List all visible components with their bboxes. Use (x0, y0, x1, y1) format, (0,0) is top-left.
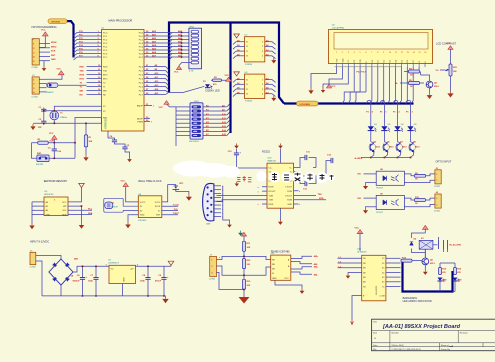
svg-text:Sheet of: Sheet of (441, 344, 449, 347)
op IC U10 MAX232 (267, 163, 294, 208)
svg-text:R1IN: R1IN (269, 187, 274, 189)
resistor R13 bottom (242, 279, 245, 289)
resistor R16 bargraph led2 (454, 268, 457, 275)
svg-text:VCC: VCC (284, 278, 289, 280)
svg-text:D4: D4 (395, 60, 397, 62)
svg-text:DS8XX LED: DS8XX LED (206, 89, 220, 93)
svg-text:RST: RST (51, 55, 56, 57)
ground U5 right (81, 223, 83, 226)
svg-text:D7: D7 (413, 60, 415, 62)
svg-text:104C: 104C (88, 280, 93, 283)
svg-text:C:\PROJECT\..\ 89S-XXX-SCH: C:\PROJECT\..\ 89S-XXX-SCH (392, 349, 421, 351)
svg-text:RL-AC-DRV: RL-AC-DRV (450, 244, 462, 247)
wire bridge bottom to ground rail (60, 285, 62, 296)
svg-text:Number: Number (392, 332, 400, 335)
battery BT1 (173, 186, 180, 192)
svg-text:485+: 485+ (314, 255, 319, 258)
ground isolated teal (240, 231, 242, 233)
svg-text:SW DIP-8: SW DIP-8 (189, 141, 200, 143)
svg-text:P-8032: P-8032 (245, 100, 253, 102)
ground arrow U2 inputs (234, 34, 240, 38)
capacitor C7 104 (95, 266, 97, 277)
resistor R12 mid (242, 259, 245, 269)
svg-text:SW-PB: SW-PB (36, 164, 44, 166)
wire ULN left inputs (338, 257, 362, 259)
op IC U1 MAIN PROCESSOR AT89S52 (102, 30, 145, 132)
transistor Q6 relay driver (422, 258, 429, 265)
relay contacts (433, 244, 438, 246)
svg-text:IO: IO (158, 210, 161, 212)
wire U11 gnd (275, 280, 302, 288)
connector J2 power aux 4 pin (32, 77, 39, 94)
svg-text:6: 6 (365, 52, 366, 54)
svg-text:RD: RD (80, 94, 84, 96)
svg-text:10: 10 (389, 52, 391, 54)
svg-text:T1IN: T1IN (269, 195, 274, 197)
svg-text:LED: LED (457, 280, 462, 282)
ground R1 (85, 155, 87, 157)
power VCC RTC left (123, 183, 129, 187)
svg-text:14: 14 (413, 52, 415, 54)
watermark dark glyphs (272, 173, 277, 181)
svg-text:TXD: TXD (80, 70, 85, 72)
svg-text:D2: D2 (384, 60, 386, 62)
wire DIP switch rows to bus (203, 106, 227, 108)
resistor R10 opto pullup (414, 199, 425, 202)
connector J1 ISP 5 pin (32, 39, 39, 65)
wire XTAL top rail to X1 (44, 110, 102, 112)
watermark circle (292, 171, 303, 182)
ground arrow U3 inputs (234, 72, 240, 76)
svg-text:T-CLK: T-CLK (173, 205, 180, 207)
svg-text:4.7K: 4.7K (189, 71, 194, 73)
op IC U3 P-BUS buffer bottom (245, 74, 265, 98)
svg-text:INPUT 9-12VDC: INPUT 9-12VDC (30, 240, 49, 244)
svg-text:GND: GND (51, 59, 56, 61)
svg-text:ISP PROGRAMMING: ISP PROGRAMMING (32, 25, 57, 29)
watermark circle (304, 172, 315, 183)
wire opto1 output (404, 174, 414, 176)
capacitor C13 lower right loop (294, 176, 316, 184)
svg-text:12: 12 (401, 52, 403, 54)
ground RS485 big (243, 295, 245, 297)
svg-text:PSEN: PSEN (137, 121, 143, 123)
wire MAX232 T1OUT R1IN to DB9 (217, 194, 268, 196)
power +5V hollow arrow (170, 265, 172, 266)
resistor R11 top (242, 241, 245, 251)
ground battery (188, 194, 190, 197)
ground opto2 (365, 208, 367, 210)
svg-text:RO: RO (272, 259, 276, 261)
wire LCD control+data pins to bus (353, 67, 355, 92)
svg-text:R1OUT: R1OUT (269, 191, 277, 193)
resistor R5 (409, 82, 420, 85)
ground Q6 (424, 270, 426, 272)
wire bridge + output rail (73, 266, 171, 272)
connector J4 CON2 (435, 194, 441, 208)
svg-text:+5V: +5V (130, 269, 134, 271)
svg-text:10K: 10K (247, 285, 251, 287)
svg-text:24-Dec-2005: 24-Dec-2005 (392, 345, 405, 347)
wire LED column 3 from bus (397, 103, 399, 105)
svg-text:CON2: CON2 (30, 267, 37, 269)
svg-text:CON2: CON2 (434, 210, 441, 212)
svg-text:D5: D5 (401, 60, 403, 62)
ground U2 (273, 58, 275, 60)
svg-text:ULN2003: ULN2003 (357, 251, 367, 253)
op resistor network RN1 4.7K (189, 28, 202, 69)
svg-text:16: 16 (424, 52, 426, 54)
svg-text:15: 15 (419, 52, 421, 54)
wire DIP switch left common (176, 106, 190, 108)
svg-text:13: 13 (407, 52, 409, 54)
wire MAX232 TTL side TXD RXD (294, 191, 326, 204)
wire group P0 port from U1 to RN1 with bus entries (144, 32, 191, 34)
svg-text:D6: D6 (407, 60, 409, 62)
wire LCD pin3 VO (323, 67, 348, 88)
watermark circle (281, 171, 292, 182)
svg-text:32K78: 32K78 (111, 207, 118, 209)
capacitor C12 right loop 2 (294, 161, 331, 177)
power VCC second (58, 71, 64, 75)
svg-text:RS232: RS232 (262, 150, 270, 154)
connector J5 power input CON2 (30, 252, 36, 264)
op optocoupler U9 PC817 (376, 195, 404, 209)
power +5 hollow arrow U5 (79, 183, 85, 187)
svg-text:VCC: VCC (159, 107, 164, 109)
wire U2 right pins to right bus (265, 41, 272, 43)
ground XTAL rail left (32, 124, 34, 126)
watermark red glyphs (237, 176, 252, 182)
wire RTC VCC1 to battery (162, 185, 176, 202)
watermark circle (316, 172, 327, 183)
svg-text:ULN2003: ULN2003 (376, 285, 378, 295)
LED D7 (438, 278, 443, 282)
svg-text:CON5: CON5 (32, 67, 39, 69)
wire bus vertical to DIP switch (229, 23, 231, 134)
svg-text:T-IO: T-IO (174, 209, 178, 211)
svg-text:GND: GND (272, 278, 277, 280)
transistor Q1 9013 (369, 144, 376, 151)
potentiometer VR1 (450, 49, 452, 64)
wire opto2 output (404, 198, 414, 200)
wire regulator gnd pin (122, 284, 124, 296)
wire LCD data bus horizontal (284, 102, 414, 104)
svg-text:PC817: PC817 (376, 188, 383, 190)
wire main data bus rectangle (169, 23, 284, 104)
wire ULN right outputs to bargraph bus (386, 257, 401, 259)
svg-text:485-: 485- (314, 263, 318, 266)
svg-text:10K: 10K (453, 71, 457, 73)
svg-text:SCL: SCL (88, 209, 93, 211)
op LCD module U4 LCD ALPHA (329, 30, 433, 64)
wire ULN E pin to ground arrow (352, 296, 362, 321)
svg-text:RST: RST (156, 215, 161, 217)
ground power rail (165, 296, 167, 299)
transistor Q3 9013 (396, 144, 403, 151)
power VCC relay (422, 225, 428, 229)
svg-text:10K: 10K (247, 247, 251, 249)
svg-text:D0: D0 (372, 60, 374, 62)
svg-text:SW1: SW1 (194, 101, 200, 103)
wire bargraph thick bus (403, 262, 453, 292)
svg-text:BARGRAPH: BARGRAPH (403, 296, 418, 300)
svg-text:104C: 104C (140, 280, 145, 283)
svg-text:RXD: RXD (103, 66, 108, 68)
wire opto1 input (364, 173, 377, 175)
capacitor C1 30P (43, 108, 45, 110)
LED D8 (453, 278, 458, 282)
op IC U2 P-BUS buffer top (245, 37, 265, 62)
wire power input bottom to ground rail (36, 261, 42, 296)
resistor R1 RST pulldown (84, 135, 87, 147)
svg-text:VO: VO (436, 70, 439, 72)
svg-text:485+: 485+ (314, 266, 319, 269)
svg-text:GND: GND (123, 277, 125, 282)
svg-text:RW: RW (360, 59, 362, 62)
resistor R15 bargraph led1 (439, 268, 442, 275)
watermark circle (256, 171, 266, 181)
wire LCD pin row line (335, 66, 403, 68)
wire RTC GND to ground (128, 215, 138, 222)
svg-text:OPTO INPUT: OPTO INPUT (436, 159, 452, 163)
svg-text:11: 11 (395, 52, 397, 54)
watermark circle (328, 174, 335, 181)
diode D6 relay (410, 242, 414, 245)
wire U3 left pins to bus (236, 79, 245, 81)
transistor Q2 9013 (383, 144, 390, 151)
power VCC above R11 (241, 232, 246, 236)
svg-text:T-RST: T-RST (173, 213, 180, 215)
svg-text:30P: 30P (38, 127, 42, 129)
wire LCD backlight pins (418, 67, 420, 72)
svg-text:CON3: CON3 (209, 279, 216, 281)
power VCC for DS8XX LED (226, 77, 232, 81)
svg-text:COM: COM (380, 296, 385, 298)
svg-text:IN4007: IN4007 (47, 92, 55, 94)
wire group P2 port to left bus (144, 66, 166, 68)
capacitor C8 104 (147, 266, 149, 277)
watermark white blob (173, 161, 213, 177)
wire DB9 pin collector vertical (223, 186, 230, 223)
svg-text:SDA: SDA (88, 212, 93, 215)
svg-text:VCC: VCC (174, 72, 179, 74)
ground C5 (129, 157, 131, 159)
capacitor C11 right loop (294, 158, 316, 168)
svg-text:470uF: 470uF (155, 280, 162, 283)
svg-text:Revision: Revision (460, 333, 469, 335)
svg-text:D3: D3 (390, 60, 392, 62)
svg-text:RXD: RXD (319, 198, 324, 200)
svg-text:485-: 485- (314, 273, 318, 276)
svg-text:CON4: CON4 (32, 97, 39, 99)
svg-text:VCC: VCC (62, 202, 67, 204)
wire U11 right pins (291, 256, 312, 258)
wire U2 left pins to bus (236, 41, 245, 43)
svg-text:RN1: RN1 (190, 26, 195, 28)
wire group P3 port pins left of U1 (87, 66, 102, 68)
svg-text:LCD-DATA: LCD-DATA (300, 103, 311, 106)
wire U5 SCL SDA (68, 210, 92, 214)
wire U5 address pins to ground (32, 201, 44, 203)
svg-text:PC817: PC817 (376, 212, 383, 214)
wire ALE PSEN stubs (144, 118, 150, 120)
relay K1 coil (419, 240, 433, 249)
svg-text:VCC: VCC (446, 43, 451, 45)
svg-text:2: 2 (342, 52, 343, 54)
diode D2 IN4007 (47, 83, 58, 87)
connector J3 CON2 (435, 170, 441, 184)
wire MAX232 left unused stubs (262, 187, 267, 204)
power VCC LCD (326, 84, 331, 88)
svg-text:VCC: VCC (41, 30, 46, 32)
svg-text:12MHz: 12MHz (60, 117, 67, 119)
capacitor C3 reset (53, 143, 55, 149)
power VCC reset (52, 135, 58, 139)
net flag LCD-DATA on bus (297, 101, 319, 106)
svg-text:VCC: VCC (49, 133, 54, 135)
capacitor C5 below U1 (122, 146, 127, 148)
ground U3 (273, 96, 275, 98)
wire RST pin circuit (75, 118, 102, 159)
transistor Q4 9013 (409, 144, 416, 151)
svg-text:LM7805CT: LM7805CT (108, 263, 119, 265)
svg-text:RST: RST (103, 117, 108, 119)
ground U5 left (31, 223, 33, 226)
svg-text:LED ARRAY INDICATOR: LED ARRAY INDICATOR (403, 299, 432, 303)
svg-text:LCD ALPHA: LCD ALPHA (332, 26, 345, 29)
power VCC ISP (42, 32, 48, 36)
svg-text:D1: D1 (378, 60, 380, 62)
ground LCD VSS (310, 88, 312, 90)
svg-text:GND: GND (46, 214, 51, 216)
op switch SW1 SW DIP-8 (190, 103, 203, 139)
connector J7 CON3 (210, 256, 217, 276)
svg-text:AT89S52: AT89S52 (104, 118, 108, 129)
ground ULN left area (348, 272, 362, 273)
wire LED column 4 from bus (410, 103, 412, 105)
net flag MOSI (48, 19, 67, 24)
wire LCD pin1 VSS to ground (311, 67, 337, 88)
svg-text:VCC: VCC (331, 86, 336, 88)
svg-text:RXD: RXD (80, 66, 85, 68)
svg-text:R2IN: R2IN (287, 200, 292, 202)
wire bus from ISP flag to P1 pins (67, 21, 74, 57)
svg-text:1: 1 (336, 52, 337, 54)
ground VR1 (450, 91, 452, 94)
svg-text:GND: GND (140, 215, 145, 217)
capacitor C9 470uF (163, 266, 165, 277)
wire RN1 common to VCC (179, 62, 191, 65)
wire group P1.0-P1.7 from ISP bus to U1 (74, 33, 102, 36)
svg-text:10K: 10K (89, 141, 93, 143)
ground near DB9 top (236, 182, 238, 184)
resistor R14 relay base (401, 259, 412, 262)
svg-text:SCLK: SCLK (155, 206, 161, 208)
wire U3 right pins (265, 79, 272, 81)
power VCC contrast (448, 46, 453, 50)
op IC U5 AT24C02 (44, 197, 68, 216)
resistor R4 backlight (409, 70, 420, 73)
op IC U11 RS485 (271, 255, 291, 280)
svg-text:TXD: TXD (103, 70, 108, 72)
wire EA pin stub (144, 105, 152, 107)
power VCC for RN1 (176, 66, 181, 70)
wire power ground rail (42, 295, 166, 297)
transistor Q5 backlight (426, 81, 433, 88)
svg-text:5: 5 (360, 52, 361, 54)
svg-text:MISO: MISO (51, 46, 57, 48)
wire power input top to bridge (36, 256, 61, 260)
svg-text:9: 9 (383, 52, 384, 54)
resistor R9 opto pullup (414, 174, 425, 177)
crystal Y2 32.768K in wire loop (104, 198, 139, 212)
svg-text:VCC1: VCC1 (155, 202, 161, 204)
wire LCD pin2 VDD to VCC (329, 67, 342, 88)
wire DB9 pins out (214, 185, 221, 187)
svg-text:T1OUT: T1OUT (285, 187, 293, 189)
svg-text:A-LEDS: A-LEDS (355, 157, 363, 160)
svg-text:1000uF: 1000uF (72, 281, 80, 283)
svg-text:R1IN: R1IN (287, 191, 292, 193)
wire RTC right pins (162, 206, 178, 215)
svg-text:T2OUT: T2OUT (285, 195, 293, 197)
wire VR1 wiper VO (440, 69, 445, 71)
capacitor C2 30P (41, 120, 46, 122)
svg-text:VDD: VDD (342, 58, 344, 63)
ground ISP connector (43, 61, 45, 66)
svg-text:MAX232: MAX232 (268, 160, 277, 163)
svg-text:WR: WR (103, 90, 107, 92)
svg-text:4: 4 (354, 52, 355, 54)
ground above C10 (236, 144, 238, 146)
svg-text:AT24C02: AT24C02 (44, 193, 54, 196)
svg-text:P-8255: P-8255 (245, 64, 253, 66)
wire LED column 2 from bus (384, 103, 386, 105)
watermark circle (269, 171, 281, 183)
svg-text:EEPROM MEMORY: EEPROM MEMORY (44, 179, 68, 183)
wire RS485 network (243, 236, 245, 242)
svg-text:DS1302: DS1302 (138, 220, 147, 222)
op regulator U7 LM7805CT (109, 265, 136, 283)
svg-text:SCK: SCK (51, 51, 56, 53)
svg-text:RD: RD (103, 94, 107, 96)
ground VCC pin MAX232 (280, 144, 282, 146)
svg-text:[AA-01] 89SXX Project Board: [AA-01] 89SXX Project Board (382, 324, 461, 330)
svg-text:T2IN: T2IN (269, 200, 274, 202)
svg-text:CON2: CON2 (434, 186, 441, 188)
svg-text:8: 8 (377, 52, 378, 54)
op IC U6 DS1302 (138, 196, 162, 218)
switch SW2 reset button (37, 155, 49, 162)
title block frame (372, 319, 495, 351)
svg-text:Drawn By:: Drawn By: (441, 348, 451, 351)
svg-text:TXD: TXD (318, 194, 323, 196)
LCD pin stubs and labels (336, 64, 338, 68)
op optocoupler U8 PC817 (376, 171, 404, 185)
power VCC ULN (357, 230, 363, 234)
wire LED column 1 from bus (370, 103, 372, 105)
svg-text:ALE/P: ALE/P (137, 117, 144, 120)
wire U5 VCC pin to +5 (68, 188, 82, 202)
capacitor C10 (236, 149, 238, 153)
svg-text:LED: LED (442, 280, 447, 282)
resistor R3 reset (38, 141, 48, 144)
svg-text:7: 7 (371, 52, 372, 54)
svg-text:GND: GND (287, 204, 292, 206)
wire U5 WP to ground (68, 206, 82, 222)
svg-text:SDA: SDA (62, 213, 67, 216)
